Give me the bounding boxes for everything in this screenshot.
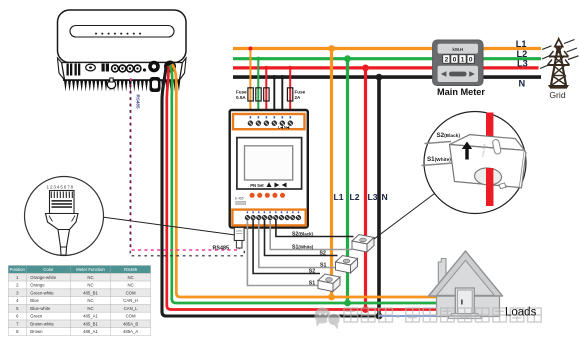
svg-text:0.5A: 0.5A bbox=[236, 95, 246, 100]
svg-text:E-485: E-485 bbox=[235, 197, 244, 201]
svg-text:RS485: RS485 bbox=[213, 246, 229, 252]
svg-text:Orange: Orange bbox=[30, 283, 45, 288]
svg-text:CAN_L: CAN_L bbox=[124, 306, 138, 311]
svg-text:NC: NC bbox=[87, 298, 93, 303]
svg-text:485A_A: 485A_A bbox=[123, 329, 138, 334]
svg-text:COM: COM bbox=[126, 314, 136, 319]
svg-text:PN Set: PN Set bbox=[250, 183, 264, 188]
svg-text:Meter Function: Meter Function bbox=[76, 267, 105, 272]
svg-text:L◀ N◀: L◀ N◀ bbox=[278, 126, 291, 130]
svg-text:1: 1 bbox=[461, 57, 465, 64]
svg-text:Brown: Brown bbox=[30, 329, 43, 334]
svg-text:12345678: 12345678 bbox=[47, 185, 75, 190]
svg-text:Position: Position bbox=[10, 267, 26, 272]
svg-text:Color: Color bbox=[43, 267, 54, 272]
svg-text:485A_B: 485A_B bbox=[123, 321, 138, 326]
svg-text:Main Meter: Main Meter bbox=[437, 87, 485, 97]
svg-text:NC: NC bbox=[87, 283, 93, 288]
svg-text:485_B1: 485_B1 bbox=[83, 321, 98, 326]
svg-text:S2(Black): S2(Black) bbox=[437, 132, 461, 139]
svg-text:CAN_H: CAN_H bbox=[123, 298, 138, 303]
svg-text:NC: NC bbox=[127, 283, 133, 288]
svg-text:Green-white: Green-white bbox=[30, 290, 54, 295]
svg-text:S1(White): S1(White) bbox=[427, 156, 451, 163]
svg-text:L3: L3 bbox=[517, 58, 528, 68]
svg-text:L1: L1 bbox=[334, 192, 344, 202]
svg-text:COM: COM bbox=[126, 290, 136, 295]
svg-text:Brown-white: Brown-white bbox=[30, 321, 54, 326]
svg-text:Blue: Blue bbox=[30, 298, 39, 303]
svg-text:NC: NC bbox=[127, 275, 133, 280]
svg-text:2A: 2A bbox=[295, 95, 302, 100]
svg-text:L3: L3 bbox=[368, 192, 378, 202]
svg-text:0: 0 bbox=[453, 57, 457, 64]
svg-text:S1: S1 bbox=[320, 262, 326, 268]
svg-text:L2: L2 bbox=[350, 192, 360, 202]
svg-text:Blue-white: Blue-white bbox=[30, 306, 51, 311]
svg-text:Fuse: Fuse bbox=[295, 90, 306, 95]
svg-text:Grid: Grid bbox=[549, 90, 565, 100]
svg-text:2: 2 bbox=[445, 57, 449, 64]
svg-text:NC: NC bbox=[87, 306, 93, 311]
svg-text:S2: S2 bbox=[320, 250, 326, 256]
svg-text:Loads: Loads bbox=[505, 307, 537, 319]
svg-text:485_B1: 485_B1 bbox=[83, 290, 98, 295]
svg-text:L1: L1 bbox=[516, 39, 527, 49]
svg-text:S1: S1 bbox=[309, 280, 315, 286]
svg-text:NC: NC bbox=[87, 275, 93, 280]
svg-text:485_A1: 485_A1 bbox=[83, 314, 98, 319]
svg-text:0: 0 bbox=[469, 57, 473, 64]
svg-text:S2: S2 bbox=[309, 268, 315, 274]
svg-text:N: N bbox=[519, 79, 526, 89]
svg-text:Fuse: Fuse bbox=[236, 90, 247, 95]
svg-text:Orange-white: Orange-white bbox=[30, 275, 56, 280]
svg-text:kW.H: kW.H bbox=[452, 47, 463, 52]
svg-text:RS485: RS485 bbox=[124, 267, 138, 272]
svg-text:Green: Green bbox=[30, 314, 43, 319]
svg-text:RS485: RS485 bbox=[136, 95, 141, 109]
svg-text:N: N bbox=[382, 192, 388, 202]
svg-text:485_A1: 485_A1 bbox=[83, 329, 98, 334]
